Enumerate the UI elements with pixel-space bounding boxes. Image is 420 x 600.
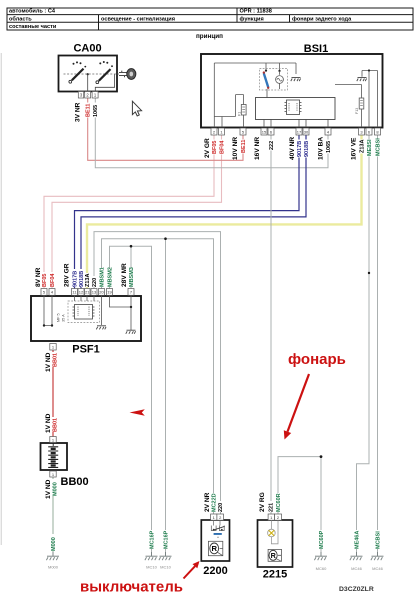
svg-text:OPR : 11838: OPR : 11838 <box>240 9 272 15</box>
svg-text:28V MR: 28V MR <box>121 263 128 287</box>
svg-text:F13: F13 <box>355 108 359 114</box>
svg-text:19: 19 <box>107 290 112 295</box>
svg-text:9017B: 9017B <box>72 271 78 287</box>
svg-text:MCBSI: MCBSI <box>375 138 381 156</box>
svg-text:область: область <box>9 15 32 22</box>
svg-text:D3CZ0ZLR: D3CZ0ZLR <box>339 586 374 593</box>
svg-text:MC46: MC46 <box>372 566 383 571</box>
svg-text:10V NR: 10V NR <box>232 137 239 160</box>
svg-text:220: 220 <box>218 503 224 512</box>
svg-text:MBSM1: MBSM1 <box>99 267 105 287</box>
svg-text:MC60R: MC60R <box>276 493 282 512</box>
svg-text:220: 220 <box>92 278 98 287</box>
svg-text:2200: 2200 <box>203 565 227 577</box>
svg-text:освещение - сигнализация: освещение - сигнализация <box>101 16 175 22</box>
svg-text:BB01: BB01 <box>53 418 59 432</box>
svg-text:MF 5: MF 5 <box>57 313 61 322</box>
svg-text:2V RG: 2V RG <box>259 492 266 512</box>
svg-text:2V GR: 2V GR <box>204 138 211 158</box>
svg-text:MC16P: MC16P <box>149 530 155 549</box>
svg-text:PSF1: PSF1 <box>72 344 100 356</box>
svg-text:BF04: BF04 <box>219 140 225 154</box>
svg-text:автомобиль : C4: автомобиль : C4 <box>9 8 56 15</box>
svg-text:1065: 1065 <box>326 141 332 153</box>
svg-text:BE11: BE11 <box>86 104 92 117</box>
svg-text:221: 221 <box>269 503 275 512</box>
svg-text:принцип: принцип <box>196 33 223 40</box>
svg-text:40V NR: 40V NR <box>289 137 296 160</box>
svg-text:21: 21 <box>85 290 90 295</box>
svg-text:2V NR: 2V NR <box>204 492 211 512</box>
svg-text:MC10: MC10 <box>160 565 171 570</box>
svg-text:BF05: BF05 <box>212 141 218 154</box>
svg-text:17: 17 <box>297 129 302 134</box>
svg-text:MC60: MC60 <box>316 566 327 571</box>
svg-text:R: R <box>271 551 277 560</box>
svg-text:222: 222 <box>269 141 275 150</box>
svg-text:MBSM3: MBSM3 <box>129 267 135 287</box>
svg-text:1V ND: 1V ND <box>45 352 52 372</box>
svg-text:BF05: BF05 <box>42 274 48 287</box>
svg-text:9018B: 9018B <box>304 141 310 157</box>
svg-text:F1: F1 <box>237 112 241 116</box>
svg-text:выключатель: выключатель <box>80 579 183 596</box>
svg-text:12: 12 <box>79 290 84 295</box>
svg-text:9018B: 9018B <box>79 271 85 287</box>
svg-text:28V GR: 28V GR <box>64 263 71 287</box>
svg-text:30: 30 <box>304 129 309 134</box>
svg-text:Z13A: Z13A <box>85 274 91 287</box>
svg-text:MC60P: MC60P <box>319 530 325 549</box>
svg-text:MBSM2: MBSM2 <box>107 267 113 287</box>
svg-text:16V NR: 16V NR <box>254 137 261 160</box>
svg-text:9017B: 9017B <box>297 141 303 157</box>
svg-text:MC16P: MC16P <box>163 530 169 549</box>
svg-text:функция: функция <box>240 15 264 22</box>
svg-text:10V BA: 10V BA <box>318 137 325 160</box>
svg-text:CA00: CA00 <box>73 43 101 55</box>
svg-text:15: 15 <box>262 129 267 134</box>
svg-text:ME46A: ME46A <box>354 531 360 549</box>
svg-text:M000: M000 <box>48 565 59 570</box>
svg-text:составные части: составные части <box>9 24 57 30</box>
svg-text:BB01: BB01 <box>53 353 59 367</box>
svg-text:MC46: MC46 <box>351 566 362 571</box>
svg-text:3V NR: 3V NR <box>75 102 82 122</box>
svg-text:фонарь: фонарь <box>288 351 346 368</box>
svg-text:MC10: MC10 <box>146 565 157 570</box>
svg-text:ME8SI: ME8SI <box>367 139 373 156</box>
svg-text:MCBSI: MCBSI <box>375 531 381 549</box>
svg-text:2215: 2215 <box>263 569 287 581</box>
svg-text:MC22D: MC22D <box>211 493 217 512</box>
svg-text:фонари заднего хода: фонари заднего хода <box>292 15 352 22</box>
svg-text:M000: M000 <box>53 482 59 496</box>
svg-text:20: 20 <box>99 290 104 295</box>
svg-text:1V ND: 1V ND <box>45 413 52 433</box>
svg-text:16V VE: 16V VE <box>350 137 357 160</box>
svg-text:1V ND: 1V ND <box>45 479 52 499</box>
svg-text:Z13A: Z13A <box>359 140 365 153</box>
svg-text:M000: M000 <box>51 537 57 551</box>
svg-text:35 A: 35 A <box>62 314 66 322</box>
svg-text:BE11: BE11 <box>241 140 247 153</box>
svg-text:13: 13 <box>92 290 97 295</box>
svg-text:BB00: BB00 <box>61 476 89 488</box>
svg-text:BF04: BF04 <box>50 273 56 287</box>
svg-text:1065: 1065 <box>93 105 99 117</box>
svg-text:R: R <box>212 544 218 553</box>
